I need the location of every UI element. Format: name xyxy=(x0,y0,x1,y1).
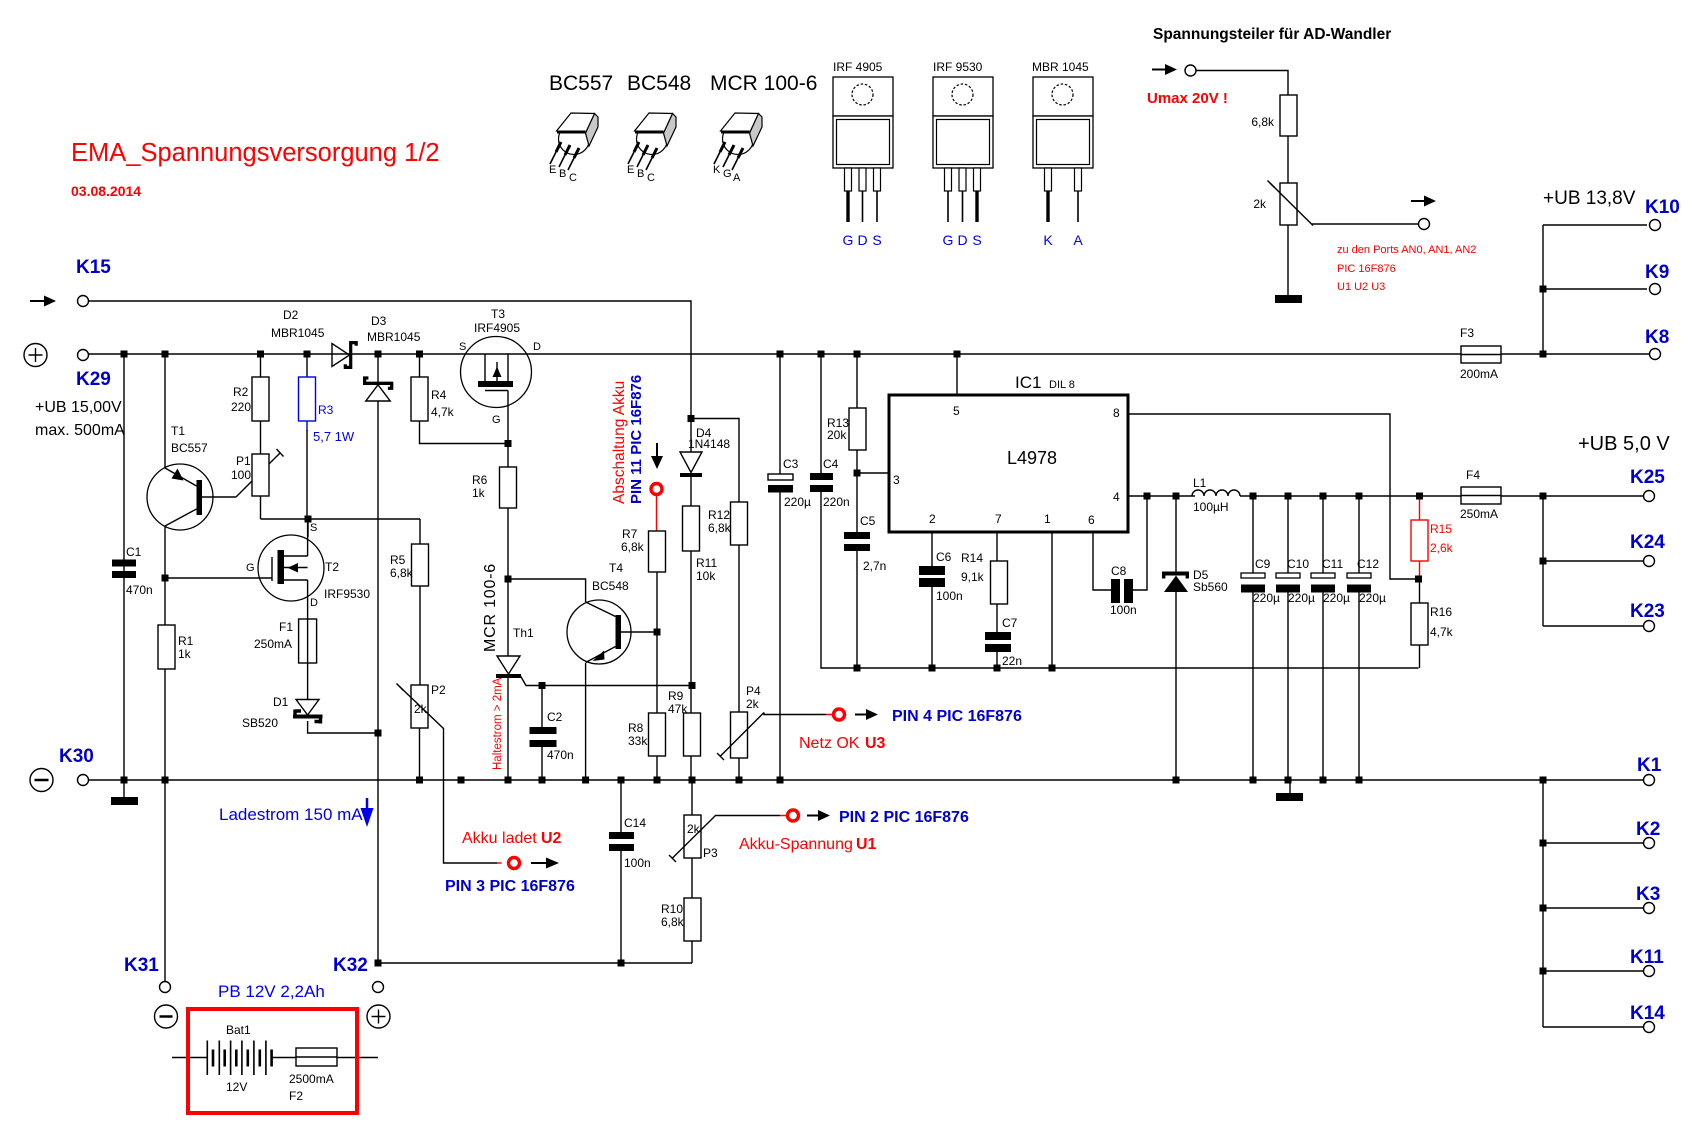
svg-text:B: B xyxy=(559,168,566,180)
svg-text:K: K xyxy=(1043,232,1053,248)
svg-text:R11: R11 xyxy=(696,556,717,570)
svg-text:K23: K23 xyxy=(1630,601,1665,622)
svg-text:K11: K11 xyxy=(1630,947,1664,968)
svg-text:2,7n: 2,7n xyxy=(863,559,886,573)
svg-text:G: G xyxy=(246,562,255,574)
svg-text:G: G xyxy=(943,232,954,248)
svg-text:T3: T3 xyxy=(491,307,505,321)
svg-text:100n: 100n xyxy=(1110,603,1137,617)
svg-text:D2: D2 xyxy=(283,308,299,322)
svg-text:2k: 2k xyxy=(687,822,701,836)
svg-text:PIN 2 PIC 16F876: PIN 2 PIC 16F876 xyxy=(839,809,969,826)
svg-text:+UB 13,8V: +UB 13,8V xyxy=(1543,188,1636,209)
svg-text:6,8k: 6,8k xyxy=(621,540,645,554)
svg-text:R16: R16 xyxy=(1430,605,1452,619)
svg-text:B: B xyxy=(637,168,644,180)
svg-text:220µ: 220µ xyxy=(1359,591,1386,605)
svg-text:PIN 4 PIC 16F876: PIN 4 PIC 16F876 xyxy=(892,708,1022,725)
svg-text:F2: F2 xyxy=(289,1089,303,1103)
svg-text:Th1: Th1 xyxy=(513,626,534,640)
svg-text:D: D xyxy=(957,232,967,248)
svg-text:7: 7 xyxy=(995,512,1002,526)
svg-text:PIN 3 PIC 16F876: PIN 3 PIC 16F876 xyxy=(445,878,575,895)
svg-text:220µ: 220µ xyxy=(1253,591,1280,605)
svg-text:Haltestrom > 2mA: Haltestrom > 2mA xyxy=(492,677,504,770)
svg-text:Netz OK: Netz OK xyxy=(799,735,860,752)
svg-text:R2: R2 xyxy=(233,385,249,399)
svg-text:1: 1 xyxy=(1044,512,1051,526)
svg-text:03.08.2014: 03.08.2014 xyxy=(71,183,141,199)
svg-text:Akku-Spannung: Akku-Spannung xyxy=(739,836,853,853)
svg-text:220µ: 220µ xyxy=(1323,591,1350,605)
svg-text:K24: K24 xyxy=(1630,532,1665,553)
svg-text:9,1k: 9,1k xyxy=(961,570,985,584)
svg-text:Spannungsteiler für AD-Wandler: Spannungsteiler für AD-Wandler xyxy=(1153,26,1391,43)
svg-text:T2: T2 xyxy=(325,560,339,574)
svg-text:IRF9530: IRF9530 xyxy=(324,587,370,601)
svg-text:2,6k: 2,6k xyxy=(1430,541,1454,555)
svg-text:S: S xyxy=(872,232,881,248)
svg-text:PIC 16F876: PIC 16F876 xyxy=(1337,263,1396,275)
svg-text:BC557: BC557 xyxy=(549,72,613,95)
svg-text:100n: 100n xyxy=(936,589,963,603)
svg-text:R9: R9 xyxy=(668,689,684,703)
svg-text:MBR1045: MBR1045 xyxy=(367,330,421,344)
svg-text:G: G xyxy=(843,232,854,248)
svg-text:1k: 1k xyxy=(178,647,192,661)
svg-text:220µ: 220µ xyxy=(784,495,811,509)
svg-text:C3: C3 xyxy=(783,457,799,471)
svg-text:250mA: 250mA xyxy=(1460,507,1498,521)
svg-text:R4: R4 xyxy=(431,388,447,402)
svg-text:U1: U1 xyxy=(856,836,877,853)
svg-text:F1: F1 xyxy=(279,620,293,634)
svg-text:Bat1: Bat1 xyxy=(226,1023,251,1037)
svg-text:D: D xyxy=(857,232,867,248)
svg-text:47k: 47k xyxy=(668,702,688,716)
svg-text:C14: C14 xyxy=(624,816,646,830)
svg-text:100n: 100n xyxy=(624,856,651,870)
svg-text:S: S xyxy=(310,522,317,534)
svg-text:6,8k: 6,8k xyxy=(390,566,414,580)
svg-text:MBR1045: MBR1045 xyxy=(271,326,325,340)
svg-text:BC548: BC548 xyxy=(592,579,629,593)
svg-text:C: C xyxy=(569,172,577,184)
svg-text:C11: C11 xyxy=(1322,557,1343,571)
svg-text:R10: R10 xyxy=(661,902,683,916)
svg-text:IC1: IC1 xyxy=(1015,373,1041,392)
svg-text:220: 220 xyxy=(231,400,251,414)
svg-text:C8: C8 xyxy=(1111,564,1127,578)
svg-text:2k: 2k xyxy=(414,702,428,716)
svg-text:R14: R14 xyxy=(961,551,983,565)
svg-text:IRF 4905: IRF 4905 xyxy=(833,60,883,74)
svg-text:100: 100 xyxy=(231,468,251,482)
svg-text:zu den Ports AN0, AN1, AN2: zu den Ports AN0, AN1, AN2 xyxy=(1337,244,1476,256)
svg-text:P2: P2 xyxy=(431,683,446,697)
svg-text:K14: K14 xyxy=(1630,1003,1665,1024)
svg-text:+UB 5,0 V: +UB 5,0 V xyxy=(1578,433,1670,455)
svg-text:K32: K32 xyxy=(333,955,368,976)
svg-text:D: D xyxy=(310,597,318,609)
svg-text:220n: 220n xyxy=(823,495,850,509)
svg-text:1N4148: 1N4148 xyxy=(688,437,730,451)
svg-text:C9: C9 xyxy=(1255,557,1271,571)
svg-text:C12: C12 xyxy=(1357,557,1379,571)
svg-text:K10: K10 xyxy=(1645,197,1680,218)
svg-text:4: 4 xyxy=(1113,490,1120,504)
svg-text:R1: R1 xyxy=(178,634,194,648)
svg-text:6,8k: 6,8k xyxy=(661,915,685,929)
svg-text:100µH: 100µH xyxy=(1193,500,1229,514)
svg-text:12V: 12V xyxy=(226,1080,247,1094)
svg-text:G: G xyxy=(492,414,501,426)
svg-text:2k: 2k xyxy=(1253,197,1267,211)
svg-text:Sb560: Sb560 xyxy=(1193,580,1228,594)
svg-text:S: S xyxy=(972,232,981,248)
svg-text:5: 5 xyxy=(953,404,960,418)
svg-text:IRF 9530: IRF 9530 xyxy=(933,60,983,74)
svg-text:MBR 1045: MBR 1045 xyxy=(1032,60,1089,74)
svg-text:K3: K3 xyxy=(1636,884,1660,905)
svg-text:R3: R3 xyxy=(318,403,334,417)
svg-text:C5: C5 xyxy=(860,514,876,528)
svg-text:E: E xyxy=(549,164,556,176)
svg-text:K1: K1 xyxy=(1637,755,1662,776)
svg-text:R12: R12 xyxy=(708,508,730,522)
svg-text:K30: K30 xyxy=(59,746,94,767)
svg-text:D3: D3 xyxy=(371,314,387,328)
svg-text:D1: D1 xyxy=(273,695,289,709)
svg-text:PB 12V 2,2Ah: PB 12V 2,2Ah xyxy=(218,982,325,1001)
svg-text:IRF4905: IRF4905 xyxy=(474,321,520,335)
svg-text:EMA_Spannungsversorgung 1/2: EMA_Spannungsversorgung 1/2 xyxy=(71,139,440,167)
svg-text:S: S xyxy=(459,341,466,353)
svg-text:SB520: SB520 xyxy=(242,716,278,730)
svg-text:250mA: 250mA xyxy=(254,637,292,651)
svg-text:6,8k: 6,8k xyxy=(708,521,732,535)
svg-text:BC548: BC548 xyxy=(627,72,691,95)
svg-text:470n: 470n xyxy=(547,748,574,762)
svg-text:K2: K2 xyxy=(1636,819,1660,840)
svg-text:MCR 100-6: MCR 100-6 xyxy=(710,72,817,95)
svg-text:T1: T1 xyxy=(171,424,185,438)
svg-text:P3: P3 xyxy=(703,846,718,860)
svg-text:BC557: BC557 xyxy=(171,441,208,455)
svg-text:max. 500mA: max. 500mA xyxy=(35,422,125,439)
svg-text:G: G xyxy=(723,168,732,180)
svg-text:C4: C4 xyxy=(823,457,839,471)
svg-text:5,7 1W: 5,7 1W xyxy=(313,429,355,444)
svg-text:K25: K25 xyxy=(1630,467,1665,488)
svg-text:E: E xyxy=(627,164,634,176)
svg-text:L4978: L4978 xyxy=(1007,448,1057,468)
svg-text:R6: R6 xyxy=(472,473,488,487)
svg-text:K8: K8 xyxy=(1645,327,1669,348)
svg-text:R7: R7 xyxy=(622,527,638,541)
svg-text:6: 6 xyxy=(1088,513,1095,527)
svg-text:U3: U3 xyxy=(865,735,886,752)
svg-text:4,7k: 4,7k xyxy=(1430,625,1454,639)
svg-text:C2: C2 xyxy=(547,710,563,724)
svg-text:8: 8 xyxy=(1113,406,1120,420)
svg-text:2500mA: 2500mA xyxy=(289,1072,334,1086)
svg-text:10k: 10k xyxy=(696,569,716,583)
svg-text:C: C xyxy=(647,172,655,184)
svg-text:K31: K31 xyxy=(124,955,159,976)
svg-text:K9: K9 xyxy=(1645,262,1669,283)
svg-text:P4: P4 xyxy=(746,684,761,698)
svg-text:R5: R5 xyxy=(390,553,406,567)
svg-text:22n: 22n xyxy=(1002,654,1022,668)
svg-text:Ladestrom 150 mA: Ladestrom 150 mA xyxy=(219,805,363,824)
svg-text:A: A xyxy=(1073,232,1083,248)
svg-text:R15: R15 xyxy=(1430,522,1452,536)
svg-text:4,7k: 4,7k xyxy=(431,405,455,419)
svg-text:20k: 20k xyxy=(827,428,847,442)
svg-text:Umax 20V !: Umax 20V ! xyxy=(1147,90,1228,107)
svg-text:L1: L1 xyxy=(1193,476,1207,490)
svg-text:PIN 11 PIC 16F876: PIN 11 PIC 16F876 xyxy=(628,375,645,504)
svg-text:C10: C10 xyxy=(1287,557,1309,571)
svg-text:T4: T4 xyxy=(609,561,623,575)
svg-text:P1: P1 xyxy=(236,454,251,468)
svg-text:C6: C6 xyxy=(936,550,952,564)
svg-text:D: D xyxy=(533,341,541,353)
svg-text:C1: C1 xyxy=(126,545,142,559)
svg-text:Abschaltung Akku: Abschaltung Akku xyxy=(611,381,628,504)
svg-text:2: 2 xyxy=(929,512,936,526)
svg-text:200mA: 200mA xyxy=(1460,367,1498,381)
svg-text:+UB 15,00V: +UB 15,00V xyxy=(35,399,122,416)
svg-text:F4: F4 xyxy=(1466,468,1480,482)
svg-text:Akku ladet: Akku ladet xyxy=(462,830,537,847)
svg-text:U2: U2 xyxy=(541,830,562,847)
svg-text:K15: K15 xyxy=(76,257,111,278)
svg-text:6,8k: 6,8k xyxy=(1251,115,1275,129)
svg-text:K: K xyxy=(713,164,721,176)
svg-text:A: A xyxy=(733,172,741,184)
svg-text:F3: F3 xyxy=(1460,326,1474,340)
svg-text:220µ: 220µ xyxy=(1288,591,1315,605)
svg-text:C7: C7 xyxy=(1002,616,1018,630)
svg-text:U1 U2 U3: U1 U2 U3 xyxy=(1337,281,1385,293)
svg-text:3: 3 xyxy=(893,473,900,487)
svg-text:470n: 470n xyxy=(126,583,153,597)
svg-text:R8: R8 xyxy=(628,721,644,735)
svg-text:K29: K29 xyxy=(76,369,111,390)
svg-text:DIL 8: DIL 8 xyxy=(1049,379,1075,391)
svg-text:33k: 33k xyxy=(628,734,648,748)
svg-text:2k: 2k xyxy=(746,697,760,711)
svg-text:1k: 1k xyxy=(472,486,486,500)
svg-text:MCR 100-6: MCR 100-6 xyxy=(482,563,499,652)
